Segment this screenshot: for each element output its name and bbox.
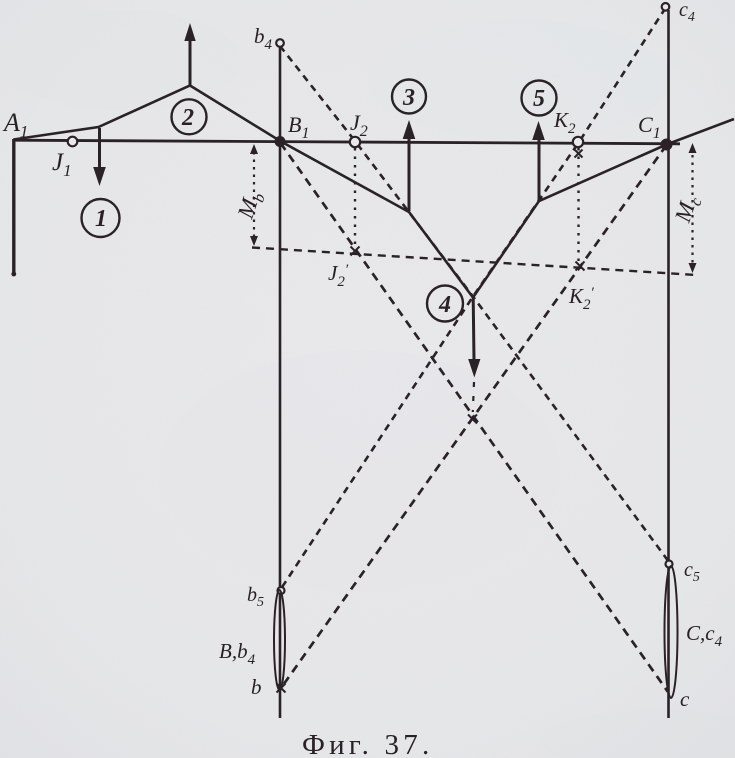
svg-text:1: 1 bbox=[95, 206, 107, 232]
svg-text:2: 2 bbox=[181, 105, 194, 131]
svg-text:c: c bbox=[680, 687, 690, 711]
svg-text:3: 3 bbox=[402, 85, 415, 111]
svg-text:Фиг. 37.: Фиг. 37. bbox=[302, 729, 433, 758]
svg-text:5: 5 bbox=[533, 86, 545, 112]
svg-text:b: b bbox=[251, 675, 262, 699]
svg-text:4: 4 bbox=[438, 292, 451, 318]
